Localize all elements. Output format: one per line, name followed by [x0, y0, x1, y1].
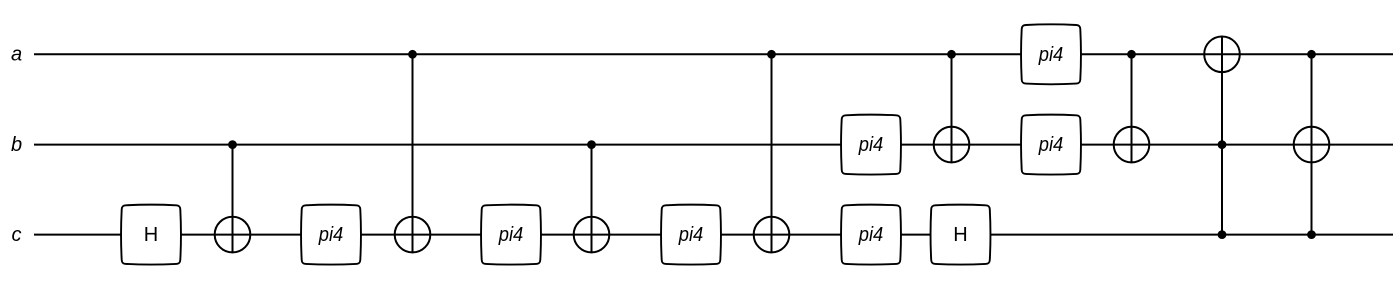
- CX3 target on c: [574, 217, 610, 253]
- CX6 target on b: [1114, 127, 1150, 163]
- CX5 control dot on a: [947, 50, 956, 59]
- gate pi4 T7 on b: [1021, 115, 1081, 175]
- CCX1 control dot on b: [1218, 140, 1227, 149]
- svg-text:pi4: pi4: [1038, 44, 1063, 66]
- wire a: [34, 53, 1393, 55]
- gate pi4 T3 on c: [661, 205, 721, 265]
- CCX2 control dot on a: [1307, 50, 1316, 59]
- wire CCX2 vertical a-c: [1311, 54, 1313, 234]
- wire CX1 vertical b-c: [232, 145, 234, 254]
- svg-text:pi4: pi4: [858, 134, 883, 156]
- svg-text:H: H: [144, 224, 158, 246]
- wire b: [34, 144, 1393, 146]
- svg-text:pi4: pi4: [1038, 134, 1063, 156]
- wire CX3 vertical b-c: [591, 145, 593, 254]
- label b: [11, 134, 22, 156]
- svg-text:a: a: [11, 44, 22, 66]
- CX4 control dot on a: [767, 50, 776, 59]
- CX1 control dot on b: [228, 140, 237, 149]
- CX2 control dot on a: [408, 50, 417, 59]
- CCX1 control dot on c: [1218, 230, 1227, 239]
- wire CX2 vertical a-c: [412, 54, 414, 253]
- wire CX6 vertical a-b: [1131, 54, 1133, 163]
- wire CCX1 vertical a-c: [1221, 36, 1223, 235]
- gate pi4 T1 on c: [301, 205, 361, 265]
- CX6 control dot on a: [1127, 50, 1136, 59]
- wire CX4 vertical a-c: [771, 54, 773, 253]
- CCX2 target on b: [1294, 127, 1330, 163]
- gate pi4 T2 on c: [481, 205, 541, 265]
- svg-text:pi4: pi4: [678, 224, 703, 246]
- gate H2 on c: [931, 205, 991, 265]
- CCX2 control dot on c: [1307, 230, 1316, 239]
- gate pi4 T6 on a: [1021, 24, 1081, 84]
- label c: [12, 224, 22, 246]
- svg-text:pi4: pi4: [318, 224, 343, 246]
- gate pi4 T4 on c: [841, 205, 901, 265]
- svg-text:c: c: [12, 224, 22, 246]
- CX1 target on c: [215, 217, 251, 253]
- wire c: [34, 234, 1393, 236]
- CX5 target on b: [934, 127, 970, 163]
- CCX1 target on a: [1204, 37, 1240, 73]
- svg-text:H: H: [953, 224, 967, 246]
- svg-text:b: b: [11, 134, 22, 156]
- CX2 target on c: [395, 217, 431, 253]
- CX3 control dot on b: [587, 140, 596, 149]
- gate H1 on c: [121, 205, 181, 265]
- label a: [11, 44, 22, 66]
- gate pi4 T5 on b: [841, 115, 901, 175]
- svg-text:pi4: pi4: [858, 224, 883, 246]
- svg-text:pi4: pi4: [498, 224, 523, 246]
- wire CX5 vertical a-b: [951, 54, 953, 163]
- CX4 target on c: [754, 217, 790, 253]
